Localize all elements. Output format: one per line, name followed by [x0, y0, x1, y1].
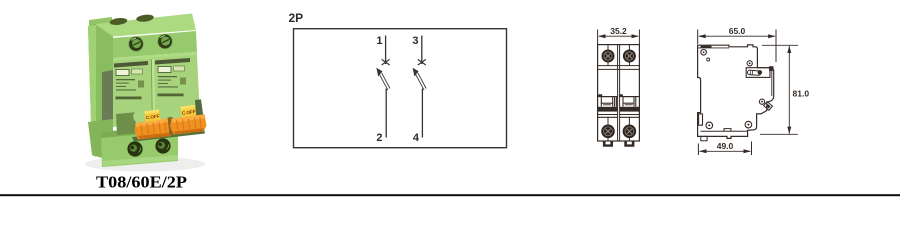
side view: dimension 49.0 — [698, 142, 751, 156]
toggle pivot bump right — [170, 106, 184, 119]
breaker photo: toggle left (orange) — [133, 109, 174, 139]
front view: lower terminal slot lines — [608, 117, 629, 141]
pole 2: upper wire — [421, 36, 423, 65]
side view: dimension 65.0 — [698, 30, 776, 63]
side view: screw boss mid-right — [759, 99, 764, 104]
breaker photo: top face — [95, 14, 196, 37]
front view: handle bar right — [620, 107, 640, 112]
breaker photo: bottom terminal block — [101, 125, 178, 167]
pole 1: breaker blade with arrowhead — [376, 68, 390, 90]
side view: screw boss bottom-left — [706, 122, 713, 129]
side view: body profile — [698, 45, 774, 138]
front view: centre pole split — [618, 45, 620, 141]
front view: dimension 35.2 — [598, 30, 640, 45]
front view: toggle corner block right — [619, 94, 623, 96]
breaker photo: left side face — [88, 22, 113, 161]
side view: toggle lever — [747, 70, 762, 75]
front view: lower screw right — [623, 125, 637, 139]
pole 1: upper wire — [385, 36, 387, 65]
front view: top section lines — [598, 66, 640, 70]
pole divider — [153, 59, 154, 122]
bottom lip — [102, 155, 178, 166]
pole 2: breaker blade with arrowhead — [413, 68, 427, 90]
svg-text:3: 3 — [412, 35, 418, 47]
svg-text:4: 4 — [413, 132, 420, 144]
front view: body outline — [598, 45, 640, 141]
side view: top clip band — [698, 46, 729, 48]
breaker photo: sloped terminal face with screws — [113, 31, 197, 62]
breaker photo: front face — [113, 55, 200, 127]
side view: lock tab — [764, 102, 773, 111]
side view: base plate details — [701, 129, 748, 141]
side view: screw boss bottom-right — [745, 121, 752, 128]
pole 1: lower wire — [385, 89, 387, 138]
bottom rule — [0, 194, 900, 196]
top vent hole right — [136, 14, 154, 23]
breaker photo: drop shadow — [85, 157, 205, 172]
spec text lines left pole — [116, 79, 145, 99]
front view: toggle corner block left — [598, 94, 602, 96]
svg-text:1: 1 — [376, 35, 382, 47]
front view: upper screw left — [602, 50, 615, 63]
front view: lower screw left — [601, 125, 615, 139]
front view: upper screw right — [623, 50, 636, 63]
brand label right pole — [158, 67, 171, 73]
side view: toggle housing — [746, 67, 773, 96]
side view: screw boss top-left — [701, 50, 710, 62]
svg-text:35.2: 35.2 — [610, 26, 627, 36]
svg-text:49.0: 49.0 — [717, 141, 734, 151]
breaker photo: toggle separator shadow — [168, 117, 175, 135]
schematic title 2P — [289, 11, 304, 25]
side view: dimension 81.0 — [760, 45, 798, 134]
front view: top terminal slot lines — [608, 45, 629, 66]
schematic enclosure box — [294, 29, 507, 148]
side view: screw boss top-right — [747, 61, 752, 66]
node label 2 — [376, 132, 382, 144]
terminal screw left — [128, 36, 143, 51]
pole 2: lower wire — [421, 89, 423, 138]
node label 1 — [376, 35, 382, 47]
front view: toggle frame left — [598, 97, 618, 107]
ledge highlight — [113, 52, 197, 62]
side view: DIN clip slot — [699, 114, 703, 125]
breaker photo: DIN mounting tab top-left — [89, 17, 112, 34]
front view: handle bar left — [598, 107, 618, 112]
front view: bottom clamp left — [603, 141, 613, 147]
node label 4 — [413, 132, 420, 144]
front view: label lines — [598, 115, 640, 118]
bottom terminal hole left — [127, 141, 142, 156]
OFF cap left — [144, 109, 160, 121]
svg-text:65.0: 65.0 — [729, 26, 746, 36]
pole 1: contact X — [382, 59, 390, 65]
OFF cap right — [180, 105, 196, 117]
top vent hole left — [109, 17, 127, 26]
front view: toggle frame right — [620, 97, 640, 107]
svg-text:T08/60E/2P: T08/60E/2P — [96, 173, 187, 192]
pole 2: contact X — [418, 59, 426, 65]
step shadow strip — [114, 61, 148, 68]
breaker photo: toggle right (orange) — [170, 105, 207, 135]
toggle pivot bump left — [133, 110, 147, 123]
svg-text:2P: 2P — [289, 11, 304, 25]
breaker photo: toggle recess shadows — [116, 99, 205, 141]
svg-text:2: 2 — [376, 132, 382, 144]
spec text lines right pole — [158, 76, 187, 96]
breaker photo caption T08/60E/2P — [96, 173, 187, 192]
bottom terminal hole right — [155, 138, 170, 153]
brand label left pole — [116, 70, 129, 76]
front view: bottom clamp right — [624, 141, 634, 147]
svg-text:81.0: 81.0 — [793, 89, 810, 99]
node label 3 — [412, 35, 418, 47]
terminal screw right — [157, 34, 172, 49]
